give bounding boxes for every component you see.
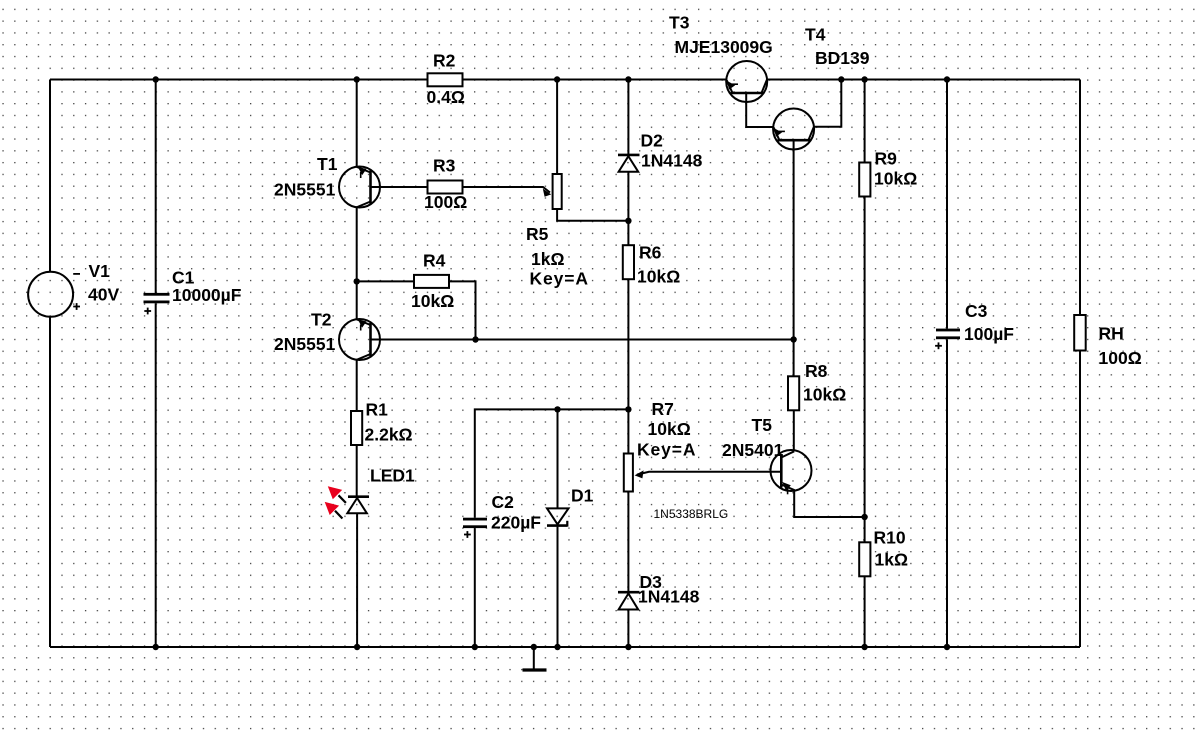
- svg-text:10kΩ: 10kΩ: [648, 419, 691, 439]
- junction dot R5-D2: [625, 218, 631, 224]
- wire T4 base down to R8 node: [793, 140, 795, 376]
- resistor R3: [428, 181, 463, 194]
- wire R5 bottom jog to D2 column: [557, 209, 628, 221]
- transistor T5: [771, 450, 812, 494]
- ground stub: [533, 647, 535, 669]
- node R9 label: [874, 149, 917, 189]
- node R2 label: [427, 51, 465, 108]
- svg-text:2N5551: 2N5551: [274, 180, 336, 200]
- svg-text:100Ω: 100Ω: [1099, 348, 1142, 368]
- node R6 label: [637, 242, 680, 286]
- svg-text:LED1: LED1: [370, 466, 415, 486]
- svg-text:RH: RH: [1099, 324, 1124, 344]
- svg-text:R8: R8: [805, 361, 828, 381]
- svg-text:100µF: 100µF: [964, 324, 1014, 344]
- wire C3 column lower: [946, 339, 948, 647]
- svg-text:10000µF: 10000µF: [172, 285, 242, 305]
- svg-text:R9: R9: [875, 149, 898, 169]
- node T1 label: [274, 154, 338, 200]
- wire R10 to bottom rail: [864, 576, 866, 647]
- svg-text:R2: R2: [433, 51, 456, 71]
- svg-text:R7: R7: [652, 399, 674, 419]
- node R5 label: [526, 224, 589, 289]
- wire T5 emitter down and right: [794, 490, 864, 517]
- wire LED1 to bottom rail: [356, 513, 358, 647]
- wire top rail middle segment: [463, 79, 727, 81]
- svg-text:D2: D2: [641, 131, 664, 151]
- svg-text:C3: C3: [965, 301, 988, 321]
- svg-text:1N4148: 1N4148: [641, 151, 703, 171]
- svg-text:R3: R3: [433, 156, 456, 176]
- svg-text:1N5338BRLG: 1N5338BRLG: [654, 507, 729, 521]
- wire C2 bottom: [474, 528, 476, 647]
- wire T2 to R1: [356, 360, 358, 411]
- node RH label: [1099, 324, 1142, 369]
- node T3 label: [669, 13, 773, 58]
- wire R4 right jog down: [449, 281, 476, 339]
- wire left rail lower: [49, 317, 51, 647]
- node T4 label: [805, 25, 870, 69]
- wire RH bottom: [1079, 351, 1081, 648]
- svg-text:R1: R1: [366, 400, 389, 420]
- wire R9 to R10: [864, 197, 866, 543]
- transistor T1: [339, 167, 380, 208]
- wire T2 base line: [371, 339, 794, 341]
- node D3 label: [638, 572, 700, 607]
- svg-text:T3: T3: [669, 13, 690, 33]
- svg-text:40V: 40V: [88, 285, 119, 305]
- resistor R2: [428, 73, 463, 86]
- svg-text:10kΩ: 10kΩ: [874, 169, 917, 189]
- wire R6 to R7: [627, 279, 629, 453]
- svg-text:MJE13009G: MJE13009G: [675, 37, 773, 57]
- svg-text:R4: R4: [423, 251, 446, 271]
- voltage source V1: [28, 272, 80, 317]
- resistor R4: [414, 275, 449, 288]
- svg-text:0.4Ω: 0.4Ω: [427, 87, 465, 107]
- diode D3: [618, 592, 640, 609]
- capacitor C3: [935, 329, 960, 350]
- svg-text:Key=A: Key=A: [530, 269, 589, 289]
- wire R1 to LED1: [356, 445, 358, 496]
- resistor R1: [351, 411, 362, 445]
- node C1 label: [172, 268, 242, 306]
- svg-text:100Ω: 100Ω: [424, 192, 467, 212]
- wire C1 column lower: [155, 303, 157, 647]
- svg-text:2N5551: 2N5551: [274, 334, 336, 354]
- svg-text:T2: T2: [311, 310, 332, 330]
- wire D2 column top: [627, 80, 629, 155]
- wire T1 collector to top rail: [356, 80, 358, 168]
- wire T1 to T2: [356, 207, 358, 319]
- junction dots bottom rail: [153, 644, 159, 650]
- node D2 label: [641, 131, 703, 171]
- wire T4 collector to top rail: [814, 80, 841, 127]
- svg-text:1kΩ: 1kΩ: [531, 249, 565, 269]
- node R4 label: [411, 251, 454, 312]
- wire D1 top: [557, 409, 559, 508]
- wire R5 top: [556, 80, 558, 175]
- svg-text:R10: R10: [874, 528, 906, 548]
- wire R3 to R5 wiper: [463, 187, 551, 193]
- node T2 label: [274, 310, 336, 355]
- svg-text:1kΩ: 1kΩ: [875, 550, 909, 570]
- wire C3 column upper: [946, 80, 948, 329]
- resistor R9: [859, 163, 870, 197]
- diode D2: [618, 155, 640, 172]
- wire bottom rail: [50, 646, 1080, 648]
- wire RH top: [1079, 80, 1081, 316]
- wire R9 top: [864, 80, 866, 163]
- wire left rail upper: [49, 80, 51, 273]
- node C2 label: [491, 492, 541, 533]
- transistor T2: [339, 319, 380, 360]
- wire R7 to D3: [627, 492, 629, 592]
- resistor R10: [859, 542, 870, 576]
- transistor T4: [773, 109, 814, 150]
- svg-text:T4: T4: [805, 25, 826, 45]
- wire T3 base to T4: [746, 93, 773, 127]
- potentiometer R7: [624, 454, 644, 492]
- svg-text:BD139: BD139: [815, 48, 870, 68]
- junction dot C2 line R7: [625, 406, 631, 412]
- wire top rail left segment: [50, 79, 428, 81]
- node R8 label: [803, 361, 846, 405]
- resistor R6: [623, 245, 634, 279]
- svg-text:T5: T5: [752, 415, 773, 435]
- svg-text:2N5401: 2N5401: [722, 440, 784, 460]
- wire C2 top line: [475, 409, 629, 517]
- junction dot T4 base R8: [790, 336, 796, 342]
- resistor R8: [788, 376, 799, 410]
- svg-text:2.2kΩ: 2.2kΩ: [365, 425, 413, 445]
- junction dot C2 line D1: [554, 406, 560, 412]
- wire R8 to T5: [793, 410, 795, 451]
- svg-text:R5: R5: [526, 224, 549, 244]
- LED LED1: [325, 486, 369, 518]
- node R10 label: [874, 528, 909, 570]
- junction dots top rail: [153, 76, 159, 82]
- svg-text:10kΩ: 10kΩ: [803, 385, 846, 405]
- svg-text:V1: V1: [89, 261, 111, 281]
- node T5 label: [722, 415, 784, 460]
- wire T1 base to R3: [371, 186, 428, 188]
- svg-text:1N4148: 1N4148: [638, 587, 700, 607]
- capacitor C2: [463, 518, 487, 538]
- svg-text:10kΩ: 10kΩ: [411, 291, 454, 311]
- wire D1 bottom: [557, 527, 559, 647]
- transistor T3: [726, 61, 767, 102]
- zener diode D1: [547, 508, 569, 526]
- node R3 label: [424, 156, 467, 213]
- resistor RH: [1074, 315, 1086, 351]
- node R1 label: [365, 400, 413, 445]
- svg-text:D1: D1: [571, 486, 594, 506]
- junction dot R4 branch: [354, 278, 360, 284]
- wire C1 column upper: [155, 80, 157, 294]
- node R7 label: [637, 399, 696, 460]
- node V1 label: [88, 261, 119, 305]
- svg-text:Key=A: Key=A: [637, 440, 696, 460]
- wire top rail right segment: [767, 79, 1080, 81]
- wire D2 to R6: [627, 172, 629, 246]
- svg-text:R6: R6: [639, 242, 662, 262]
- svg-text:C2: C2: [492, 492, 515, 512]
- wire R2 node to R4: [357, 280, 414, 282]
- junction dot R4-T2 base: [472, 336, 478, 342]
- ground bar: [523, 668, 547, 671]
- svg-text:220µF: 220µF: [491, 513, 541, 533]
- capacitor C1: [144, 293, 170, 315]
- svg-text:10kΩ: 10kΩ: [637, 266, 680, 286]
- potentiometer R5: [543, 174, 562, 209]
- wire D3 to bottom rail: [627, 610, 629, 648]
- junction dot T5 emitter R10: [861, 514, 867, 520]
- svg-text:T1: T1: [317, 154, 338, 174]
- node C3 label: [964, 301, 1014, 344]
- wire T5 base to R7 wiper: [637, 472, 781, 475]
